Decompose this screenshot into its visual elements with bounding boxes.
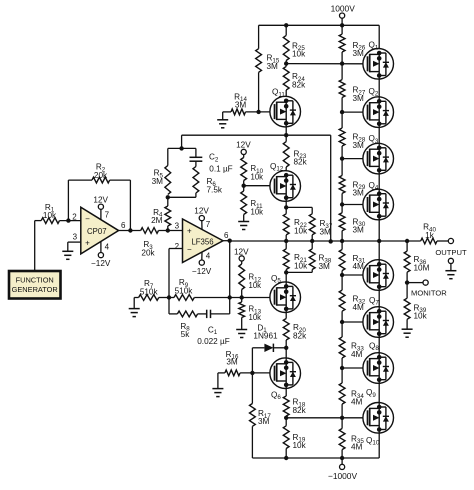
svg-text:4M: 4M <box>351 398 363 407</box>
svg-text:3M: 3M <box>353 141 365 150</box>
svg-text:0.022 µF: 0.022 µF <box>197 337 229 346</box>
svg-text:12V: 12V <box>93 196 108 205</box>
svg-text:82k: 82k <box>293 331 307 340</box>
svg-text:3M: 3M <box>235 101 247 110</box>
svg-text:12V: 12V <box>194 207 209 216</box>
svg-text:10k: 10k <box>414 312 428 321</box>
svg-text:−: − <box>85 214 90 223</box>
svg-text:3M: 3M <box>353 49 365 58</box>
svg-text:3M: 3M <box>353 94 365 103</box>
svg-text:4M: 4M <box>353 303 365 312</box>
svg-text:10k: 10k <box>251 173 264 182</box>
svg-text:10k: 10k <box>251 208 264 217</box>
svg-text:5k: 5k <box>181 330 191 339</box>
svg-text:1k: 1k <box>425 231 435 240</box>
svg-text:82k: 82k <box>292 81 306 90</box>
svg-text:1N961: 1N961 <box>253 332 278 341</box>
svg-text:7.5k: 7.5k <box>207 186 223 195</box>
svg-text:4M: 4M <box>353 262 365 271</box>
svg-text:LF356: LF356 <box>191 237 213 246</box>
svg-text:20k: 20k <box>94 171 108 180</box>
svg-text:4: 4 <box>206 252 211 261</box>
svg-text:10k: 10k <box>294 261 308 270</box>
svg-text:1000V: 1000V <box>331 4 356 14</box>
svg-text:7: 7 <box>105 210 110 219</box>
svg-text:3M: 3M <box>226 358 238 367</box>
svg-text:GENERATOR: GENERATOR <box>12 285 58 294</box>
svg-text:−12V: −12V <box>91 259 111 268</box>
svg-text:MONITOR: MONITOR <box>411 288 447 297</box>
svg-text:3: 3 <box>175 221 180 230</box>
svg-text:CP07: CP07 <box>87 227 107 236</box>
svg-text:12V: 12V <box>234 247 249 256</box>
svg-text:+: + <box>187 227 192 236</box>
svg-text:3M: 3M <box>320 227 332 236</box>
svg-text:3: 3 <box>73 233 78 242</box>
svg-text:3M: 3M <box>353 189 365 198</box>
svg-text:0.1 µF: 0.1 µF <box>209 164 232 173</box>
svg-text:−: − <box>187 245 192 254</box>
svg-text:2M: 2M <box>151 216 163 225</box>
svg-text:10k: 10k <box>294 227 308 236</box>
svg-text:7: 7 <box>206 220 211 229</box>
svg-text:10k: 10k <box>293 441 307 450</box>
svg-text:510k: 510k <box>175 286 194 295</box>
svg-text:10k: 10k <box>249 313 262 322</box>
svg-text:FUNCTION: FUNCTION <box>16 276 54 285</box>
svg-text:2: 2 <box>72 213 77 222</box>
svg-text:−1000V: −1000V <box>328 471 358 481</box>
svg-text:3M: 3M <box>258 417 270 426</box>
svg-text:OUTPUT: OUTPUT <box>435 248 467 257</box>
svg-text:+: + <box>85 239 90 248</box>
svg-text:3M: 3M <box>353 226 365 235</box>
svg-text:3M: 3M <box>319 262 331 271</box>
svg-text:4M: 4M <box>351 443 363 452</box>
svg-text:2: 2 <box>175 242 180 251</box>
svg-text:510k: 510k <box>140 287 159 296</box>
svg-text:12V: 12V <box>236 140 251 149</box>
svg-text:3M: 3M <box>152 177 164 186</box>
svg-text:4: 4 <box>105 242 110 251</box>
svg-text:10k: 10k <box>43 211 57 220</box>
svg-text:10k: 10k <box>292 50 306 59</box>
svg-text:10M: 10M <box>414 264 430 273</box>
svg-text:3M: 3M <box>267 62 279 71</box>
svg-text:82k: 82k <box>293 406 307 415</box>
svg-text:6: 6 <box>224 231 229 240</box>
svg-text:−12V: −12V <box>192 267 212 276</box>
svg-text:6: 6 <box>121 221 126 230</box>
svg-text:82k: 82k <box>294 158 308 167</box>
svg-text:4M: 4M <box>351 350 363 359</box>
svg-text:20k: 20k <box>141 249 155 258</box>
svg-text:10k: 10k <box>249 281 262 290</box>
